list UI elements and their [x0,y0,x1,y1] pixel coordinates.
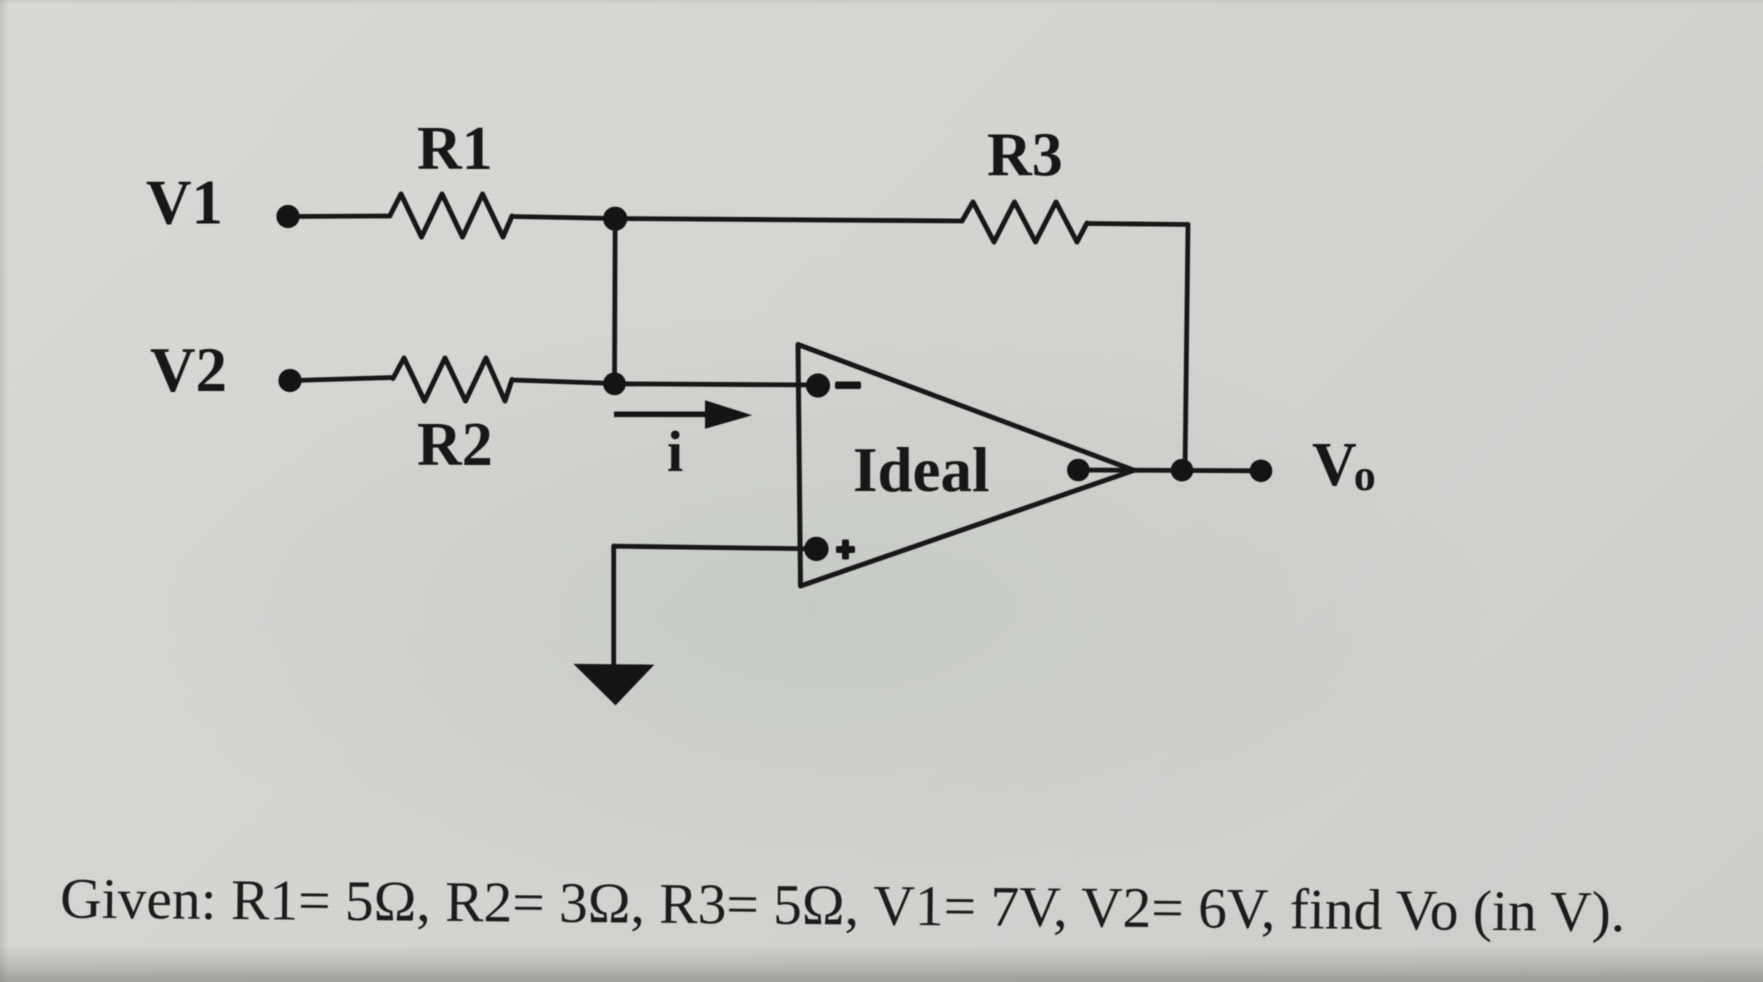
svg-text:Given: R1= 5Ω, R2= 3Ω, R3= 5Ω,: Given: R1= 5Ω, R2= 3Ω, R3= 5Ω, V1= 7V, V… [60,868,1626,945]
svg-text:R1: R1 [417,115,493,183]
svg-text:i: i [667,419,683,484]
node B junction dot [603,372,626,395]
wire down to ground [611,546,616,666]
wire feedback vertical [1185,225,1188,471]
dot feedback junction [1171,459,1194,482]
resistor R1 [390,194,512,237]
wire V2 terminal to R2 [294,378,393,381]
node dot V2 terminal [278,369,301,392]
svg-text:R3: R3 [987,122,1063,190]
wire V1 terminal to R1 [292,214,390,219]
wire R1 to node A [512,217,615,219]
resistor R3 [962,202,1087,242]
current arrow i head [705,400,752,429]
dot noninverting input [804,537,828,561]
minus sign inverting input [835,382,861,390]
current arrow i shaft [614,412,707,418]
wire node A down to node B [612,219,618,384]
dot inverting input [806,373,830,397]
op-amp U1 [798,345,1134,587]
dot Vo terminal [1250,460,1273,483]
resistor R2 [393,358,512,401]
svg-text:Ideal: Ideal [853,435,990,505]
svg-text:R2: R2 [417,411,493,479]
node dot V1 terminal [276,205,299,228]
ground [573,664,654,706]
svg-text:V2: V2 [150,335,227,405]
wire op-amp output to Vo terminal [1078,468,1261,474]
svg-text:V1: V1 [146,168,223,238]
dot op-amp output [1067,459,1090,482]
node A junction dot [603,207,627,231]
wire node B to inverting input [615,384,819,385]
svg-text:Vo: Vo [1312,431,1376,500]
wire noninverting input to left [614,546,817,549]
plus sign noninverting input [836,546,855,553]
wire node A to R3 [615,219,962,222]
wire R3 to top-right corner [1087,224,1188,225]
wire R2 to node B [512,380,615,384]
